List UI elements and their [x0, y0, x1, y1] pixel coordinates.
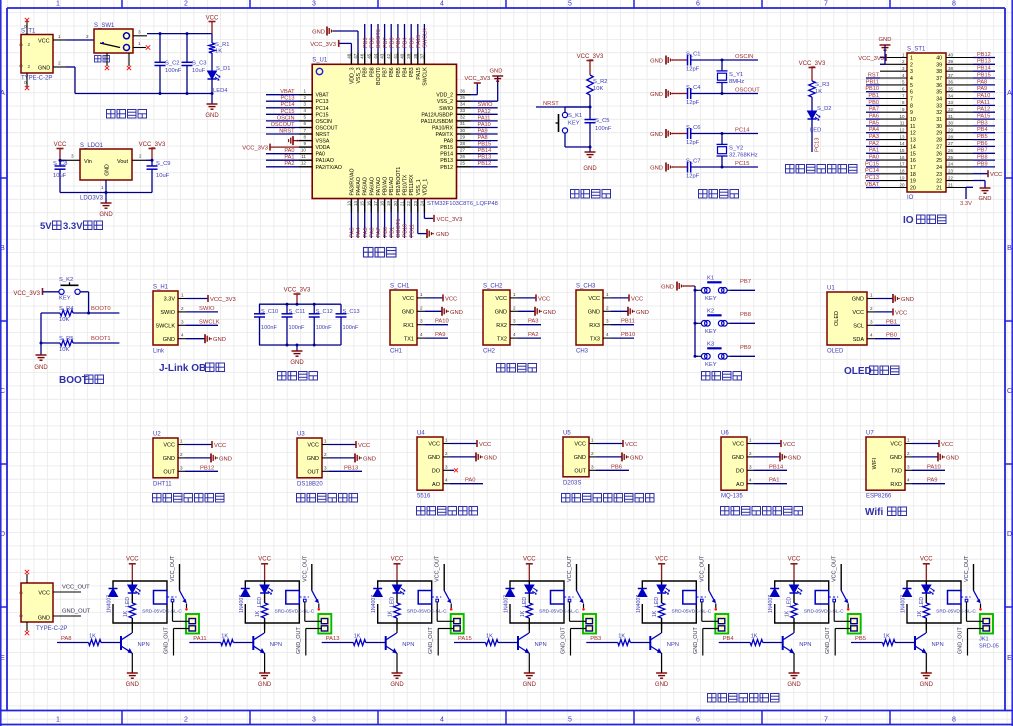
- svg-text:U5: U5: [563, 431, 571, 437]
- wire LDO.Vout: [132, 159, 146, 161]
- transistor NPN (relay PA13): [385, 636, 387, 650]
- svg-text:PA9: PA9: [478, 128, 488, 134]
- LED S_D2: [808, 111, 817, 119]
- svg-text:3: 3: [910, 69, 913, 75]
- svg-text:SRD-05VDC-SL-C: SRD-05VDC-SL-C: [407, 608, 447, 614]
- svg-text:VCC: VCC: [126, 557, 139, 563]
- svg-text:PA5: PA5: [869, 120, 879, 126]
- svg-text:100nF: 100nF: [343, 325, 359, 331]
- svg-text:12: 12: [910, 131, 916, 137]
- svg-text:VDDA: VDDA: [316, 145, 331, 151]
- svg-text:VCC_3V3: VCC_3V3: [139, 142, 166, 148]
- svg-text:TX3: TX3: [590, 336, 600, 342]
- relay switch contact: [167, 596, 177, 598]
- svg-text:PA3: PA3: [528, 319, 539, 325]
- svg-text:47: 47: [353, 53, 358, 59]
- svg-text:2: 2: [180, 452, 183, 457]
- svg-text:13: 13: [346, 201, 351, 207]
- svg-text:GND: GND: [636, 310, 649, 316]
- svg-text:VCC: VCC: [358, 443, 370, 449]
- resistor 1K (base) + net PA13: [322, 642, 354, 644]
- module U2 DHT11: [153, 438, 178, 478]
- connector S_T1 TYPE-C-2P: [21, 35, 53, 74]
- svg-text:30: 30: [936, 124, 942, 130]
- svg-text:1: 1: [180, 439, 183, 444]
- OLED U1 body: [827, 292, 867, 345]
- svg-text:36: 36: [460, 89, 466, 94]
- svg-text:VCC: VCC: [163, 443, 175, 449]
- svg-text:PA15: PA15: [416, 67, 422, 79]
- svg-text:VCC_OUT: VCC_OUT: [567, 555, 573, 582]
- svg-text:VCC: VCC: [38, 38, 50, 44]
- relay drive loop wire: [775, 581, 829, 597]
- capacitor S_C2: [159, 34, 161, 63]
- svg-text:SWIO: SWIO: [439, 106, 453, 112]
- svg-text:20: 20: [393, 201, 398, 207]
- svg-text:PB11: PB11: [866, 79, 879, 85]
- svg-text:1K: 1K: [215, 49, 222, 55]
- relay LED: [790, 585, 799, 593]
- svg-text:5: 5: [568, 717, 572, 724]
- title 程序运行指示灯: [786, 165, 795, 174]
- svg-text:PB4: PB4: [403, 67, 409, 77]
- ground GND (relay PA15): [524, 672, 535, 674]
- svg-text:21: 21: [400, 201, 405, 207]
- svg-text:GND: GND: [484, 455, 497, 461]
- svg-text:U3: U3: [297, 432, 305, 438]
- top zone labels: [121, 0, 123, 8]
- header pin22 GND: [973, 180, 985, 182]
- svg-text:K2: K2: [707, 308, 714, 314]
- svg-text:VCC: VCC: [214, 443, 226, 449]
- svg-text:GND: GND: [495, 310, 507, 316]
- svg-text:3: 3: [180, 465, 183, 470]
- svg-text:1K: 1K: [89, 634, 96, 640]
- svg-text:PA11: PA11: [193, 636, 206, 642]
- resistor 1K (base) + net PB4: [719, 642, 751, 644]
- relay drive loop wire: [245, 581, 299, 597]
- svg-text:2: 2: [513, 305, 516, 310]
- svg-text:3: 3: [312, 1, 316, 8]
- svg-text:40: 40: [400, 53, 405, 59]
- svg-text:VCC_OUT: VCC_OUT: [62, 585, 90, 591]
- svg-text:4: 4: [907, 478, 910, 483]
- svg-text:PB12: PB12: [440, 165, 453, 171]
- S_T1 no-connect pin top: [26, 21, 28, 35]
- svg-text:OSCOUT: OSCOUT: [271, 122, 296, 128]
- svg-text:GND: GND: [99, 212, 113, 218]
- svg-text:SRD-05VDC-SL-C: SRD-05VDC-SL-C: [142, 608, 182, 614]
- relay switch contact: [829, 596, 839, 598]
- svg-text:VCC: VCC: [783, 442, 795, 448]
- ground GND (reset): [589, 147, 591, 152]
- svg-text:2: 2: [870, 306, 873, 311]
- svg-text:32: 32: [936, 110, 942, 116]
- svg-text:PA2: PA2: [869, 141, 879, 147]
- svg-text:1K: 1K: [751, 634, 758, 640]
- svg-text:PB0/AO: PB0/AO: [383, 177, 389, 196]
- svg-text:PA1: PA1: [284, 155, 294, 161]
- svg-text:PB7: PB7: [383, 67, 389, 77]
- svg-text:SDA: SDA: [853, 337, 865, 343]
- svg-text:S_C1: S_C1: [686, 52, 701, 58]
- svg-text:22: 22: [948, 175, 954, 180]
- svg-text:IO: IO: [903, 215, 914, 226]
- svg-text:S_CH3: S_CH3: [576, 284, 596, 290]
- ground GND of LDO block: [101, 202, 112, 204]
- svg-text:S_C3: S_C3: [192, 61, 207, 67]
- header S_CH3: [576, 290, 603, 345]
- svg-text:1K: 1K: [123, 610, 129, 617]
- svg-text:VCC: VCC: [631, 296, 643, 302]
- svg-text:PA6/AO: PA6/AO: [369, 177, 375, 195]
- svg-text:PB14: PB14: [478, 148, 492, 154]
- svg-text:S_K1: S_K1: [568, 113, 582, 119]
- svg-text:PA7: PA7: [869, 107, 879, 113]
- svg-text:10: 10: [301, 148, 307, 153]
- svg-text:PB13: PB13: [478, 155, 492, 161]
- relay coil SRD-05VDC-SL-C: [286, 591, 300, 605]
- svg-text:0: 0: [24, 24, 27, 29]
- ground GND (filter): [296, 345, 298, 351]
- chip VSS_1 to GND: [417, 213, 419, 234]
- svg-text:SCL: SCL: [853, 324, 864, 330]
- svg-text:PA3: PA3: [869, 134, 879, 140]
- svg-text:38: 38: [936, 69, 942, 75]
- svg-text:PA9: PA9: [927, 478, 938, 484]
- svg-text:PB14: PB14: [440, 152, 453, 158]
- resistor 1K (base) + net PA8: [57, 642, 89, 644]
- ground GND (relay PA11): [259, 672, 270, 674]
- header right nets: [973, 57, 995, 59]
- svg-text:35: 35: [936, 90, 942, 96]
- svg-text:VCC_3V3: VCC_3V3: [210, 297, 236, 303]
- svg-text:PB9: PB9: [363, 67, 369, 77]
- relay switch contact: [696, 596, 706, 598]
- svg-text:S_C10: S_C10: [261, 309, 278, 315]
- chip pin9 VDDA VCC_3V3: [270, 146, 299, 148]
- chip bottom pins 13-24: [350, 199, 352, 213]
- svg-text:PB8: PB8: [369, 67, 375, 77]
- svg-text:GND: GND: [38, 65, 50, 71]
- svg-text:4: 4: [181, 333, 184, 338]
- capacitor S_C9 10uF: [151, 160, 153, 166]
- svg-text:LDO3V3: LDO3V3: [80, 196, 104, 202]
- svg-text:GND: GND: [258, 682, 272, 688]
- svg-text:BOOT1: BOOT1: [91, 336, 111, 342]
- svg-text:3: 3: [606, 319, 609, 324]
- svg-text:DO: DO: [736, 469, 745, 475]
- svg-text:SWIO: SWIO: [199, 306, 215, 312]
- header pin23 VCC: [973, 173, 988, 175]
- svg-text:U7: U7: [866, 431, 874, 437]
- relay LED: [393, 585, 402, 593]
- svg-text:1: 1: [56, 717, 60, 724]
- svg-text:PA3: PA3: [350, 227, 356, 237]
- terminal block (relay PA8): [186, 614, 199, 634]
- diode 1N4007: [638, 588, 647, 590]
- svg-text:3: 3: [513, 319, 516, 324]
- relay coil SRD-05VDC-SL-C: [683, 591, 697, 605]
- svg-text:20: 20: [910, 186, 916, 192]
- transistor NPN (relay PA8): [120, 636, 122, 650]
- svg-text:S_Y1: S_Y1: [729, 72, 743, 78]
- diode 1N4007: [506, 588, 515, 590]
- svg-text:36: 36: [948, 80, 954, 85]
- svg-text:2: 2: [907, 451, 910, 456]
- svg-text:3: 3: [303, 102, 306, 107]
- svg-text:1: 1: [910, 56, 913, 62]
- svg-text:1: 1: [907, 438, 910, 443]
- svg-text:13: 13: [910, 138, 916, 144]
- svg-text:5: 5: [303, 115, 306, 120]
- svg-text:VCC: VCC: [538, 296, 550, 302]
- svg-text:GND: GND: [450, 310, 463, 316]
- svg-text:16: 16: [366, 201, 371, 207]
- svg-text:1K: 1K: [785, 610, 791, 617]
- svg-text:4: 4: [420, 332, 423, 337]
- svg-text:PB7: PB7: [977, 148, 988, 154]
- header pin1 VCC_3V3: [880, 57, 886, 59]
- svg-text:LED: LED: [522, 597, 528, 607]
- svg-text:S_Y2: S_Y2: [729, 146, 743, 152]
- svg-text:OUT: OUT: [574, 469, 586, 475]
- svg-text:PB3: PB3: [409, 67, 415, 77]
- svg-text:16: 16: [910, 158, 916, 164]
- svg-text:A: A: [0, 90, 5, 97]
- svg-text:S_CH2: S_CH2: [483, 284, 503, 290]
- svg-text:25: 25: [948, 155, 954, 160]
- svg-text:GND: GND: [402, 310, 414, 316]
- svg-text:41: 41: [393, 53, 398, 59]
- svg-text:AO: AO: [736, 482, 745, 488]
- svg-text:PA1/AO: PA1/AO: [316, 158, 334, 164]
- svg-text:BOOT: BOOT: [59, 375, 88, 386]
- svg-text:PA0: PA0: [284, 148, 294, 154]
- svg-text:PB4: PB4: [723, 636, 735, 642]
- svg-text:VCC: VCC: [990, 172, 1002, 178]
- capacitor S_C8 10uF: [59, 160, 61, 166]
- U1 pin3 PB1: [875, 324, 900, 326]
- svg-text:DS18B20: DS18B20: [297, 481, 323, 487]
- relay LED: [525, 585, 534, 593]
- svg-text:S_R4: S_R4: [59, 306, 74, 312]
- svg-text:1K: 1K: [618, 634, 625, 640]
- svg-text:VCC: VCC: [428, 442, 440, 448]
- svg-text:18: 18: [899, 169, 905, 174]
- svg-text:D: D: [1007, 531, 1012, 538]
- svg-text:PB5: PB5: [977, 134, 988, 140]
- svg-text:3: 3: [138, 30, 141, 35]
- svg-text:2: 2: [184, 717, 188, 724]
- svg-text:TXD: TXD: [891, 469, 902, 475]
- svg-text:S_K2: S_K2: [59, 277, 73, 283]
- title 主芯片: [364, 248, 374, 258]
- svg-text:12pF: 12pF: [686, 100, 700, 106]
- svg-text:PB10: PB10: [403, 224, 409, 238]
- chip right pins 25-36: [457, 94, 471, 96]
- chip VDD_2 to VCC_3V3: [471, 94, 478, 96]
- svg-text:PB8: PB8: [977, 155, 988, 161]
- svg-text:VCC_3V3: VCC_3V3: [242, 146, 268, 152]
- relay switch contact: [961, 596, 971, 598]
- svg-text:46: 46: [360, 53, 365, 59]
- svg-text:4: 4: [445, 478, 448, 483]
- connector T2 TYPE-C-2P (output): [21, 583, 53, 622]
- svg-text:100nF: 100nF: [261, 325, 277, 331]
- svg-text:1K: 1K: [221, 634, 228, 640]
- svg-text:VSS_2: VSS_2: [437, 99, 453, 105]
- svg-text:SWCLK: SWCLK: [422, 67, 428, 86]
- title 温湿度检测模块: [153, 494, 162, 503]
- svg-text:PB9: PB9: [363, 37, 369, 48]
- svg-text:GND: GND: [788, 455, 801, 461]
- svg-text:17: 17: [899, 162, 905, 167]
- svg-text:VCC: VCC: [574, 442, 586, 448]
- svg-text:PA6: PA6: [370, 227, 376, 237]
- svg-text:100nF: 100nF: [595, 126, 612, 132]
- svg-text:NRST: NRST: [316, 132, 331, 138]
- svg-text:1: 1: [420, 292, 423, 297]
- svg-text:14: 14: [353, 201, 358, 207]
- svg-text:S_D2: S_D2: [817, 106, 832, 112]
- terminal block (relay PB3): [715, 614, 728, 634]
- svg-text:5: 5: [568, 1, 572, 8]
- svg-text:PB7: PB7: [383, 37, 389, 48]
- svg-text:GND: GND: [630, 455, 643, 461]
- svg-text:1N4007: 1N4007: [901, 595, 907, 613]
- svg-text:6: 6: [303, 121, 306, 126]
- SW1 pin3 wire to VCC rail: [133, 35, 147, 37]
- svg-text:GND: GND: [979, 196, 992, 202]
- terminal block (relay PA11): [318, 614, 331, 634]
- svg-text:DHT11: DHT11: [153, 481, 172, 487]
- relay drive loop wire: [907, 581, 961, 597]
- svg-text:13: 13: [899, 134, 905, 139]
- svg-text:1K: 1K: [255, 610, 261, 617]
- svg-text:OSCIN: OSCIN: [277, 115, 295, 121]
- svg-text:Vin: Vin: [84, 159, 92, 165]
- svg-text:5: 5: [910, 83, 913, 89]
- svg-text:3: 3: [71, 154, 74, 159]
- resistor 1K (base) + net PA11: [189, 642, 221, 644]
- wire T1.GND to bottom rail: [53, 66, 66, 68]
- svg-text:PA5: PA5: [363, 227, 369, 237]
- svg-text:PB6: PB6: [389, 37, 395, 48]
- filter caps S_C10-S_C13: [259, 303, 341, 305]
- svg-text:PB0: PB0: [868, 100, 879, 106]
- svg-text:PB13: PB13: [440, 158, 453, 164]
- svg-text:5516: 5516: [417, 494, 431, 500]
- svg-text:RST: RST: [868, 72, 880, 78]
- diode 1N4007: [903, 588, 912, 590]
- svg-text:LED: LED: [125, 597, 131, 607]
- key S_K2: [59, 289, 64, 294]
- svg-text:PC14: PC14: [281, 102, 295, 108]
- svg-text:PA15: PA15: [458, 636, 472, 642]
- svg-text:44: 44: [373, 53, 378, 59]
- chip pin8 VSSA ground: [293, 140, 299, 142]
- svg-text:3.3V: 3.3V: [164, 297, 176, 303]
- svg-text:GND: GND: [543, 310, 556, 316]
- svg-text:PB0: PB0: [383, 227, 389, 238]
- wire K2 to BOOT0 node: [80, 291, 88, 293]
- svg-text:S_R1: S_R1: [215, 42, 230, 48]
- svg-text:35: 35: [460, 95, 466, 100]
- svg-text:2: 2: [910, 62, 913, 68]
- relay coil SRD-05VDC-SL-C: [551, 591, 565, 605]
- svg-text:PA2/TX/AO: PA2/TX/AO: [316, 165, 342, 171]
- svg-text:CH3: CH3: [576, 349, 589, 355]
- chip top pins 37-48: [350, 52, 352, 64]
- svg-text:1N4007: 1N4007: [636, 595, 642, 613]
- svg-text:PB11/RX: PB11/RX: [409, 174, 415, 195]
- svg-text:100nF: 100nF: [165, 68, 182, 74]
- svg-text:GND: GND: [890, 455, 902, 461]
- svg-text:3: 3: [445, 464, 448, 469]
- svg-text:VCC_OUT: VCC_OUT: [302, 555, 308, 582]
- svg-text:PA9/TX: PA9/TX: [436, 132, 454, 138]
- svg-text:PA4: PA4: [356, 227, 362, 237]
- svg-text:VCC_3V3: VCC_3V3: [577, 54, 604, 60]
- svg-text:28: 28: [948, 134, 954, 139]
- svg-text:PA7/AO: PA7/AO: [376, 177, 382, 195]
- svg-text:LED4: LED4: [213, 88, 228, 94]
- svg-text:PB10: PB10: [865, 86, 879, 92]
- svg-text:AO: AO: [432, 482, 441, 488]
- svg-text:4: 4: [440, 1, 444, 8]
- svg-text:7: 7: [824, 1, 828, 8]
- svg-text:1K: 1K: [652, 610, 658, 617]
- S_T1 no-connect pin bottom: [26, 73, 28, 87]
- svg-text:STM32F103C8T6_LQFP48: STM32F103C8T6_LQFP48: [427, 201, 498, 207]
- svg-text:PA8: PA8: [977, 79, 987, 85]
- svg-text:23: 23: [948, 169, 954, 174]
- svg-text:S_H1: S_H1: [153, 285, 169, 291]
- diode 1N4007: [241, 588, 250, 590]
- svg-text:B: B: [0, 245, 5, 252]
- svg-text:28: 28: [936, 138, 942, 144]
- svg-text:100nF: 100nF: [316, 325, 332, 331]
- relay drive loop wire: [510, 581, 564, 597]
- U1 pin2 VCC: [875, 311, 893, 313]
- bottom zone labels 1-8: [121, 711, 123, 725]
- svg-text:D203S: D203S: [563, 480, 581, 486]
- svg-text:12pF: 12pF: [686, 140, 700, 146]
- svg-text:33: 33: [936, 103, 942, 109]
- svg-text:1: 1: [606, 292, 609, 297]
- svg-text:OSCOUT: OSCOUT: [735, 88, 760, 94]
- svg-text:5V: 5V: [40, 221, 52, 232]
- title 串口电路: [497, 364, 506, 373]
- svg-text:GND: GND: [213, 337, 226, 343]
- svg-text:KEY: KEY: [705, 362, 717, 368]
- svg-text:TX1: TX1: [404, 336, 414, 342]
- crystal S_Y1 8MHz: [721, 60, 723, 71]
- svg-text:14: 14: [910, 144, 916, 150]
- svg-text:PA12: PA12: [478, 109, 491, 115]
- svg-text:PA12/USBDP: PA12/USBDP: [421, 112, 453, 118]
- svg-text:PB2/BOOT1: PB2/BOOT1: [396, 167, 402, 196]
- svg-text:48: 48: [346, 53, 351, 59]
- chip VDD_1 to VCC_3V3: [423, 213, 425, 219]
- svg-text:6: 6: [696, 717, 700, 724]
- svg-text:S_SW1: S_SW1: [94, 23, 115, 29]
- svg-text:29: 29: [948, 128, 954, 133]
- svg-text:PB13: PB13: [344, 465, 358, 471]
- diode 1N4007: [770, 588, 779, 590]
- svg-text:31: 31: [948, 114, 954, 119]
